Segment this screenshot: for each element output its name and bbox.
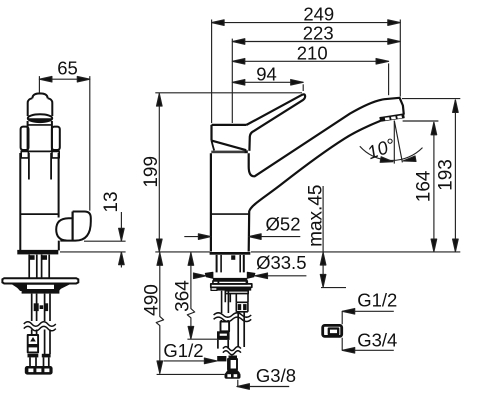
body right edge with spout U-turn	[249, 98, 404, 177]
svg-text:210: 210	[297, 42, 328, 63]
top extension line axis	[231, 39, 233, 123]
manifold slots	[28, 369, 33, 373]
svg-text:193: 193	[436, 159, 457, 191]
spout underside	[249, 121, 381, 252]
nozzle cap seam	[71, 212, 73, 241]
bottom adapter dark stripe	[228, 359, 231, 370]
angle vertical line	[393, 121, 395, 164]
right tube mid	[238, 312, 244, 347]
dim 94 line	[232, 81, 303, 83]
locknut left cap	[211, 288, 217, 291]
angle arc	[360, 146, 423, 160]
cone dark wedge right	[54, 284, 71, 290]
pipes below break	[32, 330, 50, 355]
base gasket band	[210, 252, 251, 255]
adapter fitting icon	[323, 325, 342, 336]
valve inner squares	[238, 304, 242, 310]
base bottom edge	[17, 250, 58, 252]
cone dark wedge left	[11, 284, 27, 290]
left stud	[29, 255, 37, 278]
locknut band	[211, 287, 251, 290]
left fitting slot	[220, 334, 227, 336]
cap bottom line	[21, 150, 60, 152]
bottom adapter flare	[226, 370, 241, 374]
body outer edges	[19, 153, 21, 250]
svg-text:G3/4: G3/4	[357, 329, 397, 350]
handle cap sides	[27, 121, 29, 151]
lever knob dome	[32, 93, 47, 98]
cone flange	[15, 284, 64, 290]
left fitting upper body	[221, 322, 230, 332]
top extension line spout tip	[399, 20, 401, 97]
base gasket band	[17, 251, 58, 255]
left stud nut	[29, 255, 34, 260]
check valve band	[28, 344, 38, 347]
svg-text:199: 199	[141, 156, 162, 188]
washer left wing	[205, 272, 213, 278]
washer band dividers	[218, 281, 246, 284]
bottom fitting slots	[227, 374, 231, 377]
body step line	[20, 213, 58, 215]
svg-text:max.45: max.45	[306, 185, 327, 247]
break squiggle 1	[214, 313, 252, 317]
cap top line	[212, 124, 247, 126]
left fitting hex flare	[217, 331, 230, 340]
svg-text:94: 94	[256, 63, 277, 84]
spacer band	[211, 284, 252, 287]
svg-text:G3/8: G3/8	[256, 365, 296, 386]
svg-text:G1/2: G1/2	[163, 340, 203, 361]
svg-text:223: 223	[303, 23, 334, 44]
cap bottom band right blob	[245, 150, 248, 153]
lever cylinder	[28, 98, 53, 116]
lever arm	[247, 94, 306, 150]
dim 13 extension lines	[60, 241, 126, 252]
364 bottom extension line	[187, 338, 217, 340]
dim 223 line	[232, 41, 400, 43]
max45 bottom extension line	[321, 287, 346, 289]
spout nozzle cap (end-on)	[60, 212, 91, 241]
dim 164 line	[433, 122, 435, 251]
dim 13 line upper	[120, 212, 122, 241]
right stud nut	[42, 255, 47, 260]
spout top extension line	[402, 98, 460, 100]
nozzle barrel bulge	[56, 218, 72, 240]
deck extension line right	[251, 251, 460, 253]
svg-text:65: 65	[57, 58, 78, 79]
dim 13 line lower	[120, 252, 122, 267]
cap top line	[28, 124, 52, 126]
body inner edges	[28, 153, 30, 180]
dim dia33.5	[197, 275, 306, 277]
bottom fitting nut	[225, 373, 241, 379]
cap bottom band	[211, 151, 245, 154]
svg-text:Ø52: Ø52	[266, 214, 301, 235]
FRONT VIEW	[205, 94, 404, 378]
hose tails	[30, 357, 49, 366]
LEFT SIDE VIEW	[2, 93, 90, 374]
cap lower left curve	[212, 141, 215, 151]
aerator band	[380, 114, 404, 121]
490 bottom extension line	[157, 373, 225, 375]
dim 490 line with break	[156, 253, 163, 374]
bottom adapter body	[228, 359, 237, 370]
bottom adapter collar	[229, 356, 238, 360]
break squiggle	[24, 322, 56, 326]
washer lower band	[213, 281, 247, 284]
svg-text:G1/2: G1/2	[357, 290, 397, 311]
shank outer walls	[217, 255, 244, 273]
break squiggle 2	[223, 347, 241, 351]
shank top plug	[231, 255, 235, 259]
lever ellipse dark lower half	[28, 118, 52, 122]
svg-text:364: 364	[173, 280, 194, 312]
dim 249 line	[212, 22, 401, 24]
left hose end cap	[217, 356, 226, 361]
right stud	[42, 255, 50, 278]
right ear foot	[52, 151, 59, 158]
valve top band	[225, 291, 248, 294]
dim 65 line	[39, 78, 89, 80]
shank mid fitting	[34, 303, 39, 311]
valve narrow section	[236, 302, 248, 312]
hose collars	[28, 354, 39, 358]
cap left edge	[210, 125, 212, 141]
shank inner walls	[221, 255, 240, 273]
shank left pipe	[32, 294, 37, 321]
left hose below break	[221, 320, 228, 322]
body left edge	[210, 153, 212, 251]
svg-text:249: 249	[303, 4, 334, 25]
svg-text:Ø33.5: Ø33.5	[256, 252, 306, 273]
dim max45 line	[322, 186, 324, 287]
lever top ellipse	[28, 114, 52, 122]
dim 199 line	[158, 94, 160, 252]
dim 193 line	[454, 100, 456, 252]
left fitting lower tube	[218, 340, 228, 349]
left ear foot	[21, 151, 28, 158]
top extension line rear	[211, 20, 213, 124]
dim 210 line	[232, 60, 388, 62]
dim 65 extension lines	[39, 76, 89, 211]
body seam	[211, 213, 249, 215]
fitting connector line	[341, 311, 343, 350]
check valve body	[28, 335, 38, 352]
svg-text:13: 13	[101, 191, 122, 212]
deck plate	[2, 278, 78, 283]
lever top extension line	[155, 92, 302, 94]
cap right ear	[52, 127, 60, 150]
dim 364 line with break	[187, 253, 194, 339]
cap diagonal	[212, 141, 247, 151]
left hose upper	[222, 291, 229, 313]
cone lower band	[22, 290, 60, 294]
svg-text:164: 164	[414, 170, 435, 202]
cap left ear	[21, 127, 29, 150]
top extension line outlet	[388, 63, 390, 95]
washer top strip	[213, 278, 247, 281]
deck extension line left	[155, 251, 210, 253]
shank right pipe	[45, 294, 50, 321]
dim dia52	[184, 236, 300, 238]
aerator notches	[385, 115, 402, 120]
outlet extension line	[403, 120, 439, 122]
angle tilted line	[394, 121, 402, 163]
washer right wing	[247, 272, 255, 278]
top extension line lever tip	[302, 84, 304, 91]
check valve mark	[30, 337, 36, 342]
svg-text:490: 490	[142, 284, 163, 316]
bottom manifold	[25, 366, 53, 375]
valve body walls	[225, 294, 248, 303]
